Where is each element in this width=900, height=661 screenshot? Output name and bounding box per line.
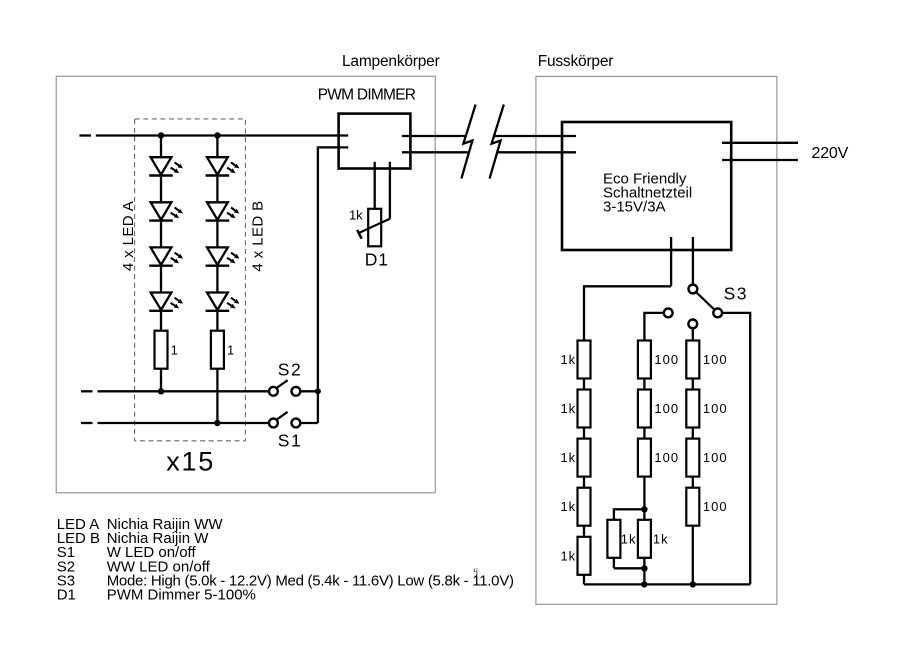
resistor R15 1k column 1 [578,537,591,575]
LED B4 [206,293,240,311]
wire S1 bus continuation dash [81,422,93,424]
svg-text:100: 100 [654,352,679,367]
switch S3 lever [696,292,715,310]
wire output to resistor column 1 [584,286,671,340]
switch S2 left contact [269,387,278,396]
svg-text:1k: 1k [560,401,576,416]
svg-text:¹j: ¹j [473,567,478,576]
svg-text:1k: 1k [560,352,576,367]
wire S2 bus continuation dash [81,390,93,392]
junction column 3 bottom bus [690,581,696,587]
power supply box Eco Friendly Schaltnetzteil [562,122,731,250]
svg-text:100: 100 [703,401,728,416]
svg-text:D1: D1 [365,250,389,270]
switch S3 common contact [689,285,698,294]
svg-text:1k: 1k [560,450,576,465]
svg-text:1k: 1k [560,548,576,563]
resistor R11 1k column 1 [578,341,591,379]
wire mains bottom 220V [722,159,798,161]
svg-text:100: 100 [703,499,728,514]
resistor R22 100 column 2 [638,390,651,428]
wire bottom bus [584,583,750,585]
wire parallel pair left leg [613,520,615,569]
svg-text:100: 100 [703,352,728,367]
wire parallel pair top link [614,509,645,520]
wire break to power supply top [495,135,576,137]
svg-text:S1: S1 [278,431,302,451]
resistor 1k parallel left [607,520,620,558]
resistor R23 100 column 2 [638,439,651,477]
dashed module box (x15 LED modules) [135,119,246,441]
junction node B anode bus [214,132,220,138]
wire break to power supply bottom [498,151,576,153]
resistor R31 100 column 3 [686,341,699,379]
wire top anode bus continuation dash [79,134,91,136]
svg-text:4 x LED A: 4 x LED A [120,201,137,271]
svg-text:220V: 220V [812,145,849,162]
LED A2 [149,202,183,220]
LED A4 [149,293,183,311]
wire top anode bus [96,134,348,136]
switch S1 left contact [269,419,278,428]
resistor 1 ohm column A [155,331,168,369]
wire parallel pair bottom link [614,567,645,569]
junction column A on S2 bus [158,388,164,394]
LED B2 [206,202,240,220]
switch S3 left contact [664,309,673,318]
svg-text:1k: 1k [349,208,363,223]
wire resistor column 1 [583,341,585,585]
junction node A anode bus [158,132,164,138]
svg-text:4 x LED B: 4 x LED B [250,200,267,271]
wire LED column A [160,136,162,392]
svg-text:S3: S3 [724,283,748,303]
wire S2 bus [98,390,270,392]
svg-text:3-15V/3A: 3-15V/3A [603,199,666,216]
enclosure box Lampenkoerper [56,76,435,493]
switch S1 right contact [292,419,301,428]
wire S3 left contact to column 2 [644,313,663,341]
resistor R33 100 column 3 [686,439,699,477]
wire S3 right contact to bottom bus [722,313,750,585]
resistor R14 1k column 1 [578,488,591,526]
resistor 1 ohm column B [211,331,224,369]
svg-text:x15: x15 [166,446,215,476]
svg-text:100: 100 [654,401,679,416]
LED A1 [149,157,183,175]
wire S2 to riser [300,390,318,392]
svg-text:Lampenkörper: Lampenkörper [342,53,440,70]
wire resistor column 3 [692,341,694,585]
LED B3 [206,247,240,265]
svg-text:PWM Dimmer 5-100%: PWM Dimmer 5-100% [107,587,256,604]
svg-text:PWM DIMMER: PWM DIMMER [318,87,416,104]
junction parallel pair top [641,506,647,512]
switch S2 right contact [292,387,301,396]
cable break bolt 1 [461,105,475,179]
wire PWM bottom pin to potentiometer [374,162,376,209]
wire S3 middle contact to column 3 [692,328,694,340]
resistor R32 100 column 3 [686,390,699,428]
svg-text:100: 100 [654,450,679,465]
svg-text:Fusskörper: Fusskörper [538,53,614,70]
enclosure box Fusskoerper [536,76,777,604]
wire riser to PWM dimmer pin [318,147,348,423]
svg-text:100: 100 [703,450,728,465]
wire PWM right bottom to break [402,151,468,153]
potentiometer D1 wiper diagonal [359,219,390,233]
LED A3 [149,247,183,265]
wire S1 to riser [300,422,318,424]
switch S2 lever [276,380,287,388]
wire resistor column 2 [643,341,645,585]
junction parallel pair bottom [641,565,647,571]
wire mains top 220V [722,142,798,144]
svg-text:S2: S2 [278,360,302,380]
potentiometer D1 wiper end bar [357,230,362,239]
junction S2 riser [315,388,321,394]
wire S1 bus [98,422,270,424]
resistor R21 100 column 2 [638,341,651,379]
PWM dimmer box [339,114,411,169]
potentiometer D1 body 1k [368,209,381,247]
svg-text:1: 1 [227,343,234,358]
svg-text:1k: 1k [653,531,669,546]
resistor R34 100 column 3 [686,488,699,526]
wire PWM bottom pin to wiper [389,162,391,219]
wire supply output left [670,237,672,286]
svg-text:D1: D1 [57,587,76,604]
junction column B on S1 bus [214,420,220,426]
wire supply output right to S3 [692,237,694,285]
junction column 2 bottom bus [641,581,647,587]
svg-text:1k: 1k [560,499,576,514]
resistor 1k parallel right [638,520,651,558]
resistor R12 1k column 1 [578,390,591,428]
wire LED column B [216,136,218,424]
LED B1 [206,157,240,175]
resistor R13 1k column 1 [578,439,591,477]
switch S3 right contact [713,309,722,318]
svg-text:1: 1 [171,343,178,358]
svg-text:1k: 1k [621,531,637,546]
switch S1 lever [276,412,287,420]
cable break bolt 2 [490,105,504,179]
wire PWM right top to break [402,135,466,137]
switch S3 middle contact [688,320,697,329]
